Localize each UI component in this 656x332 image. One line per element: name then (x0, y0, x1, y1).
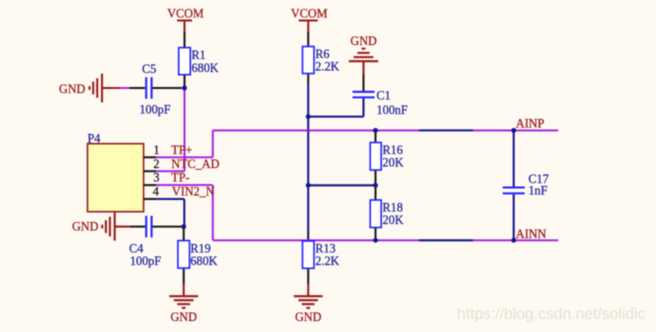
svg-text:C1: C1 (377, 89, 391, 103)
svg-text:AINN: AINN (516, 227, 547, 241)
svg-text:AINP: AINP (516, 117, 545, 131)
svg-text:https://blog.csdn.net/solidic: https://blog.csdn.net/solidic (457, 306, 646, 323)
svg-text:VCOM: VCOM (167, 6, 204, 20)
svg-text:P4: P4 (88, 131, 101, 145)
svg-text:3: 3 (153, 171, 159, 185)
svg-text:20K: 20K (383, 156, 404, 170)
svg-text:C5: C5 (142, 62, 156, 76)
svg-text:680K: 680K (190, 254, 217, 268)
svg-text:GND: GND (72, 219, 99, 233)
svg-text:GND: GND (295, 310, 322, 324)
svg-text:VCOM: VCOM (291, 6, 328, 20)
svg-text:2: 2 (153, 157, 159, 171)
svg-text:NTC_AD: NTC_AD (171, 157, 219, 171)
svg-text:2.2K: 2.2K (315, 60, 339, 74)
svg-text:TP-: TP- (171, 171, 189, 185)
svg-text:680K: 680K (192, 61, 219, 75)
svg-text:100pF: 100pF (139, 102, 170, 116)
svg-text:2.2K: 2.2K (315, 254, 339, 268)
svg-text:1nF: 1nF (528, 184, 547, 198)
svg-text:100nF: 100nF (377, 103, 408, 117)
svg-text:GND: GND (350, 34, 377, 48)
svg-text:GND: GND (171, 310, 198, 324)
svg-text:100pF: 100pF (130, 254, 161, 268)
svg-text:GND: GND (59, 82, 86, 96)
svg-text:VIN2_N: VIN2_N (172, 185, 215, 199)
svg-text:4: 4 (153, 185, 159, 199)
svg-text:1: 1 (153, 143, 159, 157)
svg-text:20K: 20K (383, 213, 404, 227)
svg-text:TP+: TP+ (171, 143, 192, 157)
